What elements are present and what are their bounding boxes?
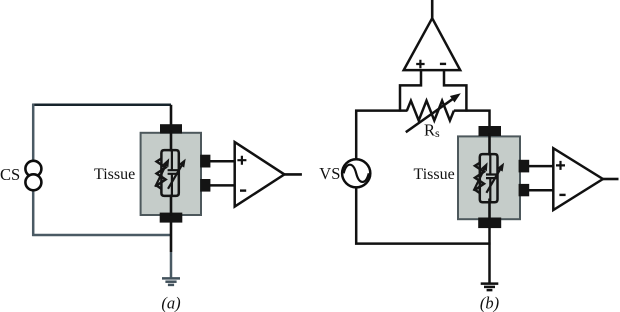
resistor arrow (a) [155,164,166,187]
wire (b): VS bottom to ground node [356,186,490,243]
wire (b): Rs to tissue top [454,111,490,126]
svg-text:Tissue: Tissue [94,166,135,183]
op-amp U3 (b right) [553,148,603,210]
tissue block (b) [458,126,529,228]
op-amp U3 plus [556,161,565,170]
tissue body (a) gray box [141,133,201,215]
resistor arrow (b) [474,168,485,191]
wire (b): upper input lead [529,165,554,168]
capacitor arrow (b) [486,168,501,193]
wire (b): lower input lead [529,189,554,192]
tissue body (b) gray box [458,136,520,219]
electrode top (b) [479,126,502,136]
op-amp U3 minus [559,194,565,196]
resistor Rs zigzag [407,101,454,121]
svg-text:(a): (a) [161,294,180,312]
wire (a): ground lead [170,252,173,278]
resistor Rs arrow [406,98,455,132]
op-amp U2 minus [440,63,446,65]
tissue inner loop (b) [480,154,498,202]
electrode bottom (a) [160,213,183,223]
resistor (a) zigzag on left branch [157,159,166,189]
svg-text:(b): (b) [480,294,499,312]
electrode top (a) [160,124,182,133]
wire (a): lower input lead [210,184,235,187]
op-amp U2 plus [416,60,424,68]
wire (a): tissue top lead [170,105,173,125]
svg-text:Tissue: Tissue [414,166,455,183]
ground (b) [481,284,499,291]
wire (a): upper input lead [210,160,235,163]
electrode right upper (b) [519,160,530,173]
VS sine wave [344,165,369,182]
op-amp U1 minus [240,189,246,191]
capacitor (b) plates [486,175,497,179]
wire top (a): CS top to tissue top [32,104,171,107]
wire (b): left sense tap [400,71,421,112]
tissue inner loop (a) [161,150,178,196]
wire (b): op-amp U2 output [431,0,434,18]
electrode right lower (a) [200,179,210,192]
capacitor (a) lead [171,150,173,196]
wire (b): VS to Rs [356,111,407,160]
op-amp U1 plus [237,156,246,165]
capacitor (a) plates [168,170,179,174]
tissue block (a) [141,124,211,222]
wire (b): right sense tap [444,71,466,112]
wire (b): tissue bottom to ground [488,227,491,283]
wire (a): tissue bottom lead to junction [170,221,173,252]
resistor (b) zigzag on left branch [475,163,484,193]
capacitor arrow (a) [168,164,183,189]
wire (b): inner vertical through tissue [488,133,491,220]
wire (a): inner vertical through tissue [170,130,173,216]
op-amp U2 (top) [404,18,461,70]
capacitor (b) lead [489,154,491,202]
svg-text:VS: VS [319,164,340,183]
electrode right upper (a) [200,155,210,168]
svg-text:CS: CS [0,165,20,184]
op-amp U1 (a) [235,142,285,207]
wire (a): op-amp output [284,173,302,176]
current source CS (two circles) [25,161,41,191]
voltage source VS [342,159,370,187]
wire left (a): vertical through CS [32,104,35,236]
electrode bottom (b) [478,218,501,229]
wire bottom (a): CS bottom to tissue bottom node [32,234,172,237]
electrode right lower (b) [519,184,530,196]
ground (a) [162,278,180,285]
wire (b): op-amp U3 output [603,178,619,181]
